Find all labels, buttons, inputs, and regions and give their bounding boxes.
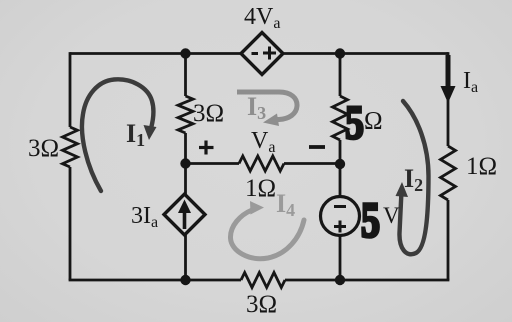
label plus Va [199, 141, 214, 155]
svg-text:5: 5 [361, 192, 380, 248]
mesh arrow I1 [82, 79, 154, 191]
wire left vertical upper [69, 52, 72, 127]
node dot top-mid [180, 48, 190, 58]
wire mid vertical 3Ia source to bottom [184, 234, 187, 280]
mesh arrow I2 [399, 101, 428, 254]
resistor R-left 3ohm zigzag [63, 127, 78, 167]
wire left vertical lower [69, 167, 72, 280]
wire top-left segment [70, 52, 241, 55]
node dot mid-right [335, 159, 345, 169]
wire mid vertical node to 3Ia source [184, 164, 187, 197]
wire middle horizontal left part [186, 162, 240, 165]
svg-text:Ia: Ia [463, 68, 478, 96]
svg-text:4Va: 4Va [244, 4, 280, 32]
svg-text:Va: Va [251, 128, 275, 156]
U2 arrow head [178, 200, 191, 214]
node dot top-right-mid [335, 48, 345, 58]
svg-text:3Ω: 3Ω [246, 291, 277, 318]
dependent source U1 4Va diamond [241, 33, 283, 75]
resistor R-bottom 3ohm zigzag [241, 273, 285, 288]
U1 minus sign [252, 52, 259, 55]
mesh arrow I3 [237, 92, 297, 120]
wire bottom-right segment [285, 279, 449, 282]
node dot bottom-right-mid [335, 275, 345, 285]
svg-text:5: 5 [345, 97, 364, 150]
svg-text:Ω: Ω [364, 108, 383, 135]
mesh arrow I4 [230, 210, 304, 259]
node dot mid-left [180, 158, 190, 168]
svg-text:3Ω: 3Ω [193, 100, 224, 127]
svg-text:I2: I2 [404, 164, 423, 195]
wire top-right segment [283, 52, 448, 55]
svg-text:V: V [383, 203, 400, 228]
U2 arrow shaft [183, 210, 187, 229]
wire bottom-left segment [69, 279, 241, 282]
wire right vertical upper [447, 52, 450, 146]
wire mid vertical between 3ohm and node [184, 133, 187, 164]
svg-text:1Ω: 1Ω [245, 175, 276, 202]
wire 5ohm to mid node [339, 140, 342, 164]
svg-text:3Ia: 3Ia [131, 203, 158, 231]
dependent source U2 3Ia diamond [164, 194, 205, 235]
wire second-middle vertical: top node to 5ohm [339, 54, 342, 97]
voltage source V1 circle [321, 197, 360, 236]
current arrow Ia [446, 55, 451, 89]
svg-text:I4: I4 [276, 189, 295, 220]
svg-text:3Ω: 3Ω [28, 135, 59, 162]
resistor R-mid 3ohm zigzag [178, 96, 193, 133]
U1 plus sign [263, 52, 276, 55]
resistor R 5ohm zigzag [333, 96, 348, 140]
svg-text:I3: I3 [247, 92, 266, 123]
wire middle-left vertical: top node to 3ohm [184, 54, 187, 97]
wire middle horizontal right part [284, 162, 340, 165]
wire right vertical lower [447, 200, 450, 280]
resistor R-mid 1ohm horizontal zigzag [239, 156, 284, 171]
svg-text:1Ω: 1Ω [466, 153, 497, 180]
wire mid node to 5V source [339, 164, 342, 197]
V1 minus sign [334, 205, 346, 208]
wire 5V source to bottom [339, 235, 342, 280]
V1 plus sign [334, 225, 346, 228]
svg-text:I1: I1 [126, 119, 145, 150]
label minus Va [309, 145, 325, 149]
node dot bottom-left-mid [180, 275, 190, 285]
resistor R-right 1ohm zigzag [441, 146, 456, 200]
